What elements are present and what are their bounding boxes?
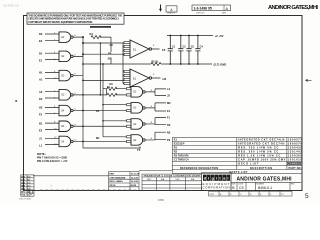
svg-text:P2: P2 <box>167 138 171 142</box>
svg-text:i: i <box>216 176 217 181</box>
svg-text:E1: E1 <box>133 77 137 81</box>
svg-text:1300439: 1300439 <box>288 147 303 150</box>
svg-text:CHK KAWAZWA: CHK KAWAZWA <box>109 176 125 179</box>
svg-text:CS: CS <box>239 186 244 190</box>
svg-text:CODE: CODE <box>238 183 244 185</box>
svg-text:CHARTS: CHARTS <box>167 12 176 15</box>
svg-text:1B 4009 1D: 1B 4009 1D <box>3 4 20 8</box>
svg-text:K3: K3 <box>90 32 94 36</box>
svg-text:REV: REV <box>222 12 227 14</box>
svg-text:NOTE:: NOTE: <box>37 152 46 156</box>
svg-text:A1: A1 <box>39 78 43 82</box>
svg-text:F3: F3 <box>162 48 166 52</box>
svg-text:A2: A2 <box>39 90 43 94</box>
svg-text:1001610: 1001610 <box>288 159 303 162</box>
svg-text:5: 5 <box>305 193 309 200</box>
svg-text:E1: E1 <box>39 58 43 62</box>
svg-text:RES. 300 1/4W 5% CC: RES. 300 1/4W 5% CC <box>238 151 278 154</box>
svg-text:ENG L.WANG: ENG L.WANG <box>109 180 123 183</box>
svg-text:N2: N2 <box>167 130 171 134</box>
svg-text:RES. 750 1/4W 5% CC: RES. 750 1/4W 5% CC <box>238 147 278 150</box>
svg-text:K1: K1 <box>96 109 100 113</box>
svg-text:M1: M1 <box>96 136 100 140</box>
svg-text:R3 THRU R6: R3 THRU R6 <box>174 155 189 158</box>
svg-text:DECO LIST: DECO LIST <box>238 163 258 166</box>
svg-text:1300365: 1300365 <box>288 155 303 158</box>
svg-text:l: l <box>227 176 228 181</box>
svg-text:INTEGRATED CKT DEC74LN: INTEGRATED CKT DEC74LN <box>238 139 284 142</box>
svg-text:E1: E1 <box>167 109 171 113</box>
svg-text:M2: M2 <box>167 101 171 105</box>
svg-text:CAP .01MFD 100V 20% GMV: CAP .01MFD 100V 20% GMV <box>238 159 285 162</box>
svg-text:R6: R6 <box>108 52 112 56</box>
svg-text:C1 THRU C4: C1 THRU C4 <box>174 159 189 162</box>
svg-text:E2,E3,E4: E2,E3,E4 <box>174 143 185 146</box>
svg-text:+2 +5V: +2 +5V <box>215 34 224 38</box>
svg-text:DEC: DEC <box>176 179 181 181</box>
svg-text:INTEGRATED CKT DEC74H: INTEGRATED CKT DEC74H <box>238 143 284 146</box>
svg-text:H2: H2 <box>39 106 43 110</box>
svg-text:B406-0-1: B406-0-1 <box>258 186 272 190</box>
svg-text:PROD: PROD <box>109 185 116 187</box>
svg-text:10-3-68: 10-3-68 <box>131 181 139 183</box>
svg-text:E1: E1 <box>133 48 137 52</box>
svg-text:B1: B1 <box>39 121 43 125</box>
svg-text:H1: H1 <box>39 71 43 75</box>
svg-text:DRN: DRN <box>109 174 114 176</box>
svg-text:C0: C0 <box>110 43 114 47</box>
svg-text:i: i <box>208 176 209 181</box>
svg-text:(2,7) GND: (2,7) GND <box>214 62 227 66</box>
svg-text:RES 1.5K 1/4W 10% CC: RES 1.5K 1/4W 10% CC <box>238 155 280 158</box>
svg-text:D0: D0 <box>39 32 43 36</box>
svg-text:10-3-68: 10-3-68 <box>131 177 139 179</box>
svg-text:D2: D2 <box>167 123 171 127</box>
svg-text:300: 300 <box>108 57 113 61</box>
svg-text:CORPORATION: CORPORATION <box>203 186 230 190</box>
svg-text:DEC: DEC <box>147 179 152 181</box>
svg-text:DIST: DIST <box>210 194 215 196</box>
svg-text:REV.: REV. <box>291 183 296 185</box>
svg-text:1301443: 1301443 <box>288 151 303 154</box>
svg-text:DATE: DATE <box>131 184 137 187</box>
svg-text:PIN 14 ON EACH IC = +5V: PIN 14 ON EACH IC = +5V <box>37 160 68 163</box>
svg-text:DWG NO: DWG NO <box>196 12 205 14</box>
svg-text:AND/NOR GATES,MHI: AND/NOR GATES,MHI <box>237 177 293 183</box>
svg-text:E2: E2 <box>39 128 43 132</box>
svg-text:E0: E0 <box>39 39 43 43</box>
svg-text:PARTS LIST: PARTS LIST <box>230 171 248 174</box>
svg-text:H3: H3 <box>163 77 167 81</box>
svg-text:10-31-68: 10-31-68 <box>131 174 140 176</box>
svg-text:AND/NOR GATES,MHI: AND/NOR GATES,MHI <box>268 5 318 11</box>
svg-text:1909576: 1909576 <box>288 143 303 146</box>
svg-text:PART NO.: PART NO. <box>289 167 302 170</box>
svg-text:K2: K2 <box>39 97 43 101</box>
svg-text:COPYRIGHT 1968 BY DIGITAL EQUI: COPYRIGHT 1968 BY DIGITAL EQUIPMENT CORP… <box>28 21 92 24</box>
svg-text:NUMBER: NUMBER <box>256 183 264 185</box>
svg-text:1909577: 1909577 <box>288 139 303 142</box>
svg-text:REFERENCE DESIGNATION: REFERENCE DESIGNATION <box>180 167 218 170</box>
svg-text:CS-B406-0-1: CS-B406-0-1 <box>288 164 303 166</box>
svg-text:TRANSISTOR & DIODE CONVERSION: TRANSISTOR & DIODE CONVERSION CHART <box>144 175 202 178</box>
svg-text:D1: D1 <box>39 51 43 55</box>
svg-text:1-3-1496 95: 1-3-1496 95 <box>194 7 212 11</box>
svg-text:DEC FORM: DEC FORM <box>20 199 31 201</box>
svg-text:F'66: F'66 <box>158 198 164 202</box>
svg-text:DESCRIPTION: DESCRIPTION <box>250 167 272 170</box>
